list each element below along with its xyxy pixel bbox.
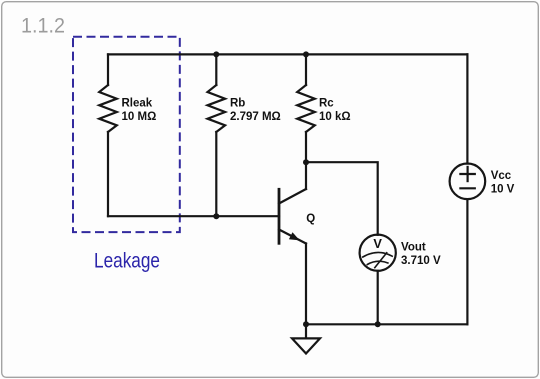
transistor Q emitter stroke: [279, 230, 306, 244]
wire: collector to voltmeter branch: [306, 162, 378, 235]
wire: bottom rail: [306, 323, 467, 325]
wire: Rb top lead: [215, 54, 217, 85]
wire: Rc top lead: [305, 54, 307, 85]
node: collector / voltmeter branch: [303, 159, 309, 165]
wire: voltmeter bottom lead: [377, 271, 379, 325]
ground triangle: [292, 338, 320, 353]
wire: Rleak bottom lead: [107, 132, 109, 216]
svg-text:Vcc: Vcc: [491, 170, 512, 182]
wire: Rleak top lead: [107, 54, 109, 85]
ground stub: [305, 324, 307, 338]
svg-text:Rb: Rb: [230, 98, 245, 110]
resistor Rb: [208, 85, 226, 132]
voltmeter Vout needle: [375, 253, 387, 268]
node: Rb top junction: [213, 51, 219, 57]
wire: Vcc bottom lead: [466, 199, 468, 324]
svg-text:3.710 V: 3.710 V: [401, 255, 441, 267]
node: emitter / ground junction: [303, 321, 309, 327]
node: base rail / Rb junction: [213, 213, 219, 219]
svg-text:V: V: [373, 236, 382, 251]
wire: right rail to Vcc: [466, 54, 468, 163]
voltmeter Vout scale arc upper: [363, 252, 392, 257]
svg-text:Rleak: Rleak: [122, 98, 153, 110]
wire: Rb bottom lead: [215, 132, 217, 216]
resistor Rleak: [99, 85, 117, 132]
source Vcc minus sign: [460, 187, 474, 189]
svg-text:10 V: 10 V: [491, 183, 515, 195]
svg-text:Leakage: Leakage: [94, 248, 160, 272]
transistor Q base bar: [278, 189, 281, 243]
wire: Rc bottom lead / collector stem: [305, 132, 307, 189]
svg-text:1.1.2: 1.1.2: [21, 14, 65, 38]
voltmeter Vout circle: [360, 235, 396, 271]
node: voltmeter bottom junction: [375, 321, 381, 327]
svg-text:Rc: Rc: [319, 98, 334, 110]
svg-text:2.797 MΩ: 2.797 MΩ: [230, 111, 281, 123]
svg-text:Q: Q: [306, 213, 315, 225]
leakage dashed box: [73, 37, 180, 232]
source Vcc circle: [450, 164, 486, 200]
transistor Q emitter arrow: [289, 232, 300, 240]
voltmeter Vout scale arc lower: [367, 261, 388, 264]
node: Rc top junction: [303, 51, 309, 57]
transistor Q collector stroke: [279, 189, 306, 204]
svg-text:Vout: Vout: [401, 242, 426, 254]
wire: top rail: [108, 53, 467, 55]
svg-text:10 kΩ: 10 kΩ: [319, 111, 351, 123]
wire: base rail: [108, 215, 279, 217]
resistor Rc: [297, 85, 315, 132]
source Vcc plus sign: [460, 173, 474, 175]
wire: emitter down: [305, 244, 307, 325]
svg-text:10 MΩ: 10 MΩ: [122, 111, 157, 123]
